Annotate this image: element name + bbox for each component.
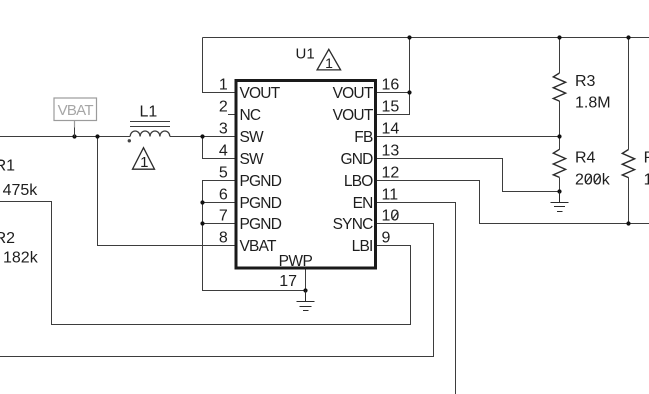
svg-text:PGND: PGND bbox=[240, 195, 282, 212]
svg-text:SW: SW bbox=[240, 129, 265, 146]
svg-text:15: 15 bbox=[382, 99, 400, 116]
svg-text:NC: NC bbox=[240, 107, 261, 124]
wire: PGND pins 5-7 bus down to PWP ground bbox=[203, 181, 306, 291]
svg-text:5: 5 bbox=[219, 165, 228, 182]
svg-text:475k: 475k bbox=[3, 182, 39, 199]
svg-text:GND: GND bbox=[340, 151, 373, 168]
wire: pin 16 VOUT stub bbox=[376, 92, 410, 94]
svg-text:17: 17 bbox=[279, 273, 297, 290]
svg-text:EN: EN bbox=[353, 195, 373, 212]
node: R5 top rail junction bbox=[626, 35, 630, 39]
wire: VBAT branch to pin 8 bbox=[98, 137, 237, 246]
node: SW junction bbox=[200, 134, 204, 138]
svg-text:SYNC: SYNC bbox=[333, 216, 373, 233]
wire: GND pin 13 to R4 bottom bbox=[376, 159, 560, 192]
note flag 1 at L1 bbox=[133, 148, 155, 171]
svg-text:8: 8 bbox=[219, 230, 228, 247]
svg-text:12: 12 bbox=[382, 165, 400, 182]
svg-text:VOUT: VOUT bbox=[240, 85, 281, 102]
wire: PGND pin 7 stub bbox=[203, 223, 237, 225]
svg-text:2: 2 bbox=[219, 99, 228, 116]
ground at R4 bottom bbox=[551, 192, 569, 212]
svg-text:VOUT: VOUT bbox=[333, 107, 374, 124]
wire: EN pin 11 down off bottom edge bbox=[376, 203, 456, 394]
node: top rail VOUT riser junction bbox=[407, 35, 411, 39]
svg-text:13: 13 bbox=[382, 143, 400, 160]
slashed zeros in 200k value (CAD font) bbox=[585, 175, 600, 183]
svg-text:1.8M: 1.8M bbox=[575, 95, 611, 112]
wire: VOUT top rail bbox=[203, 37, 649, 39]
wire: FB pin 14 to R3/R4 divider bbox=[376, 136, 560, 138]
node: PGND pin 6 junction bbox=[200, 200, 204, 204]
svg-text:R2: R2 bbox=[0, 230, 15, 247]
svg-text:3: 3 bbox=[219, 121, 228, 138]
resistor R5 (clipped at right edge) bbox=[622, 38, 634, 224]
node: R3 top rail junction bbox=[557, 35, 561, 39]
wire: SYNC pin 10 down and off left edge bbox=[0, 224, 434, 357]
svg-text:R1: R1 bbox=[0, 157, 15, 174]
wire: LBO pin 12 to R5 bottom, off right edge bbox=[376, 181, 649, 224]
svg-text:4: 4 bbox=[219, 143, 228, 160]
svg-text:FB: FB bbox=[354, 129, 373, 146]
svg-text:1: 1 bbox=[140, 154, 148, 171]
svg-text:LBO: LBO bbox=[344, 173, 373, 190]
svg-text:10: 10 bbox=[382, 208, 400, 225]
svg-text:1: 1 bbox=[219, 77, 228, 94]
node: VBAT label junction bbox=[72, 134, 76, 138]
node: FB junction R3/R4 bbox=[557, 134, 561, 138]
wire: R1 lead stub at left edge bbox=[0, 160, 3, 162]
svg-text:LBI: LBI bbox=[352, 238, 373, 255]
node VBAT: net label box bbox=[54, 98, 97, 128]
svg-text:PGND: PGND bbox=[240, 173, 282, 190]
svg-text:U1: U1 bbox=[296, 46, 315, 63]
wire: SW pin 4 branch bbox=[203, 137, 237, 159]
svg-text:1: 1 bbox=[325, 55, 333, 71]
op-amp U1 body (IC) bbox=[236, 81, 376, 269]
wire: L1 to SW pin 3 bbox=[170, 136, 236, 138]
node: VBAT branch junction bbox=[95, 134, 99, 138]
resistor R4 bbox=[553, 137, 565, 192]
inductor L1 core bars bbox=[130, 122, 170, 127]
wire: VBAT net from left edge to L1 bbox=[0, 136, 130, 138]
note flag 1 at U1 bbox=[317, 49, 341, 71]
wire: pin 17 PWP stub bbox=[305, 268, 307, 291]
svg-text:PWP: PWP bbox=[279, 253, 313, 270]
node: R5 bottom LBO junction bbox=[626, 221, 630, 225]
svg-text:L1: L1 bbox=[140, 104, 158, 121]
wire: PGND pin 6 stub bbox=[203, 202, 237, 204]
svg-text:R4: R4 bbox=[575, 150, 596, 167]
inductor L1 winding bbox=[130, 131, 170, 137]
svg-text:VOUT: VOUT bbox=[333, 85, 374, 102]
wire: VBAT leader stub bbox=[74, 128, 76, 137]
node: PWP ground junction bbox=[303, 288, 307, 292]
svg-text:R3: R3 bbox=[575, 73, 596, 90]
svg-text:200k: 200k bbox=[575, 172, 611, 189]
svg-text:16: 16 bbox=[382, 77, 400, 94]
node: R4 bottom ground junction bbox=[557, 189, 561, 193]
node: PGND pin 7 junction bbox=[200, 221, 204, 225]
svg-text:7: 7 bbox=[219, 208, 228, 225]
svg-text:14: 14 bbox=[382, 121, 400, 138]
svg-text:1M: 1M bbox=[644, 172, 649, 189]
svg-text:PGND: PGND bbox=[240, 216, 282, 233]
svg-text:R5: R5 bbox=[644, 150, 649, 167]
svg-text:182k: 182k bbox=[3, 249, 39, 266]
svg-text:SW: SW bbox=[240, 151, 265, 168]
resistor R3 bbox=[553, 38, 565, 137]
wire: pin 15 VOUT stub up to top rail bbox=[376, 38, 410, 115]
slashed zero in pin 10 number (CAD font) bbox=[392, 212, 398, 220]
wire: LBI pin 9 to R1/R2 divider at left edge bbox=[0, 202, 411, 325]
wire: pin 1 VOUT to top rail bbox=[203, 38, 237, 93]
svg-text:VBAT: VBAT bbox=[58, 102, 94, 119]
wire: pin 2 NC stub bbox=[228, 114, 236, 116]
node: VOUT pins 15/16 junction bbox=[407, 90, 411, 94]
ground at PWP pin 17 bbox=[297, 291, 315, 311]
svg-text:11: 11 bbox=[382, 187, 399, 204]
svg-text:VBAT: VBAT bbox=[240, 238, 277, 255]
svg-text:6: 6 bbox=[219, 187, 228, 204]
svg-text:9: 9 bbox=[382, 230, 391, 247]
inductor L1 phase dot bbox=[128, 139, 131, 142]
